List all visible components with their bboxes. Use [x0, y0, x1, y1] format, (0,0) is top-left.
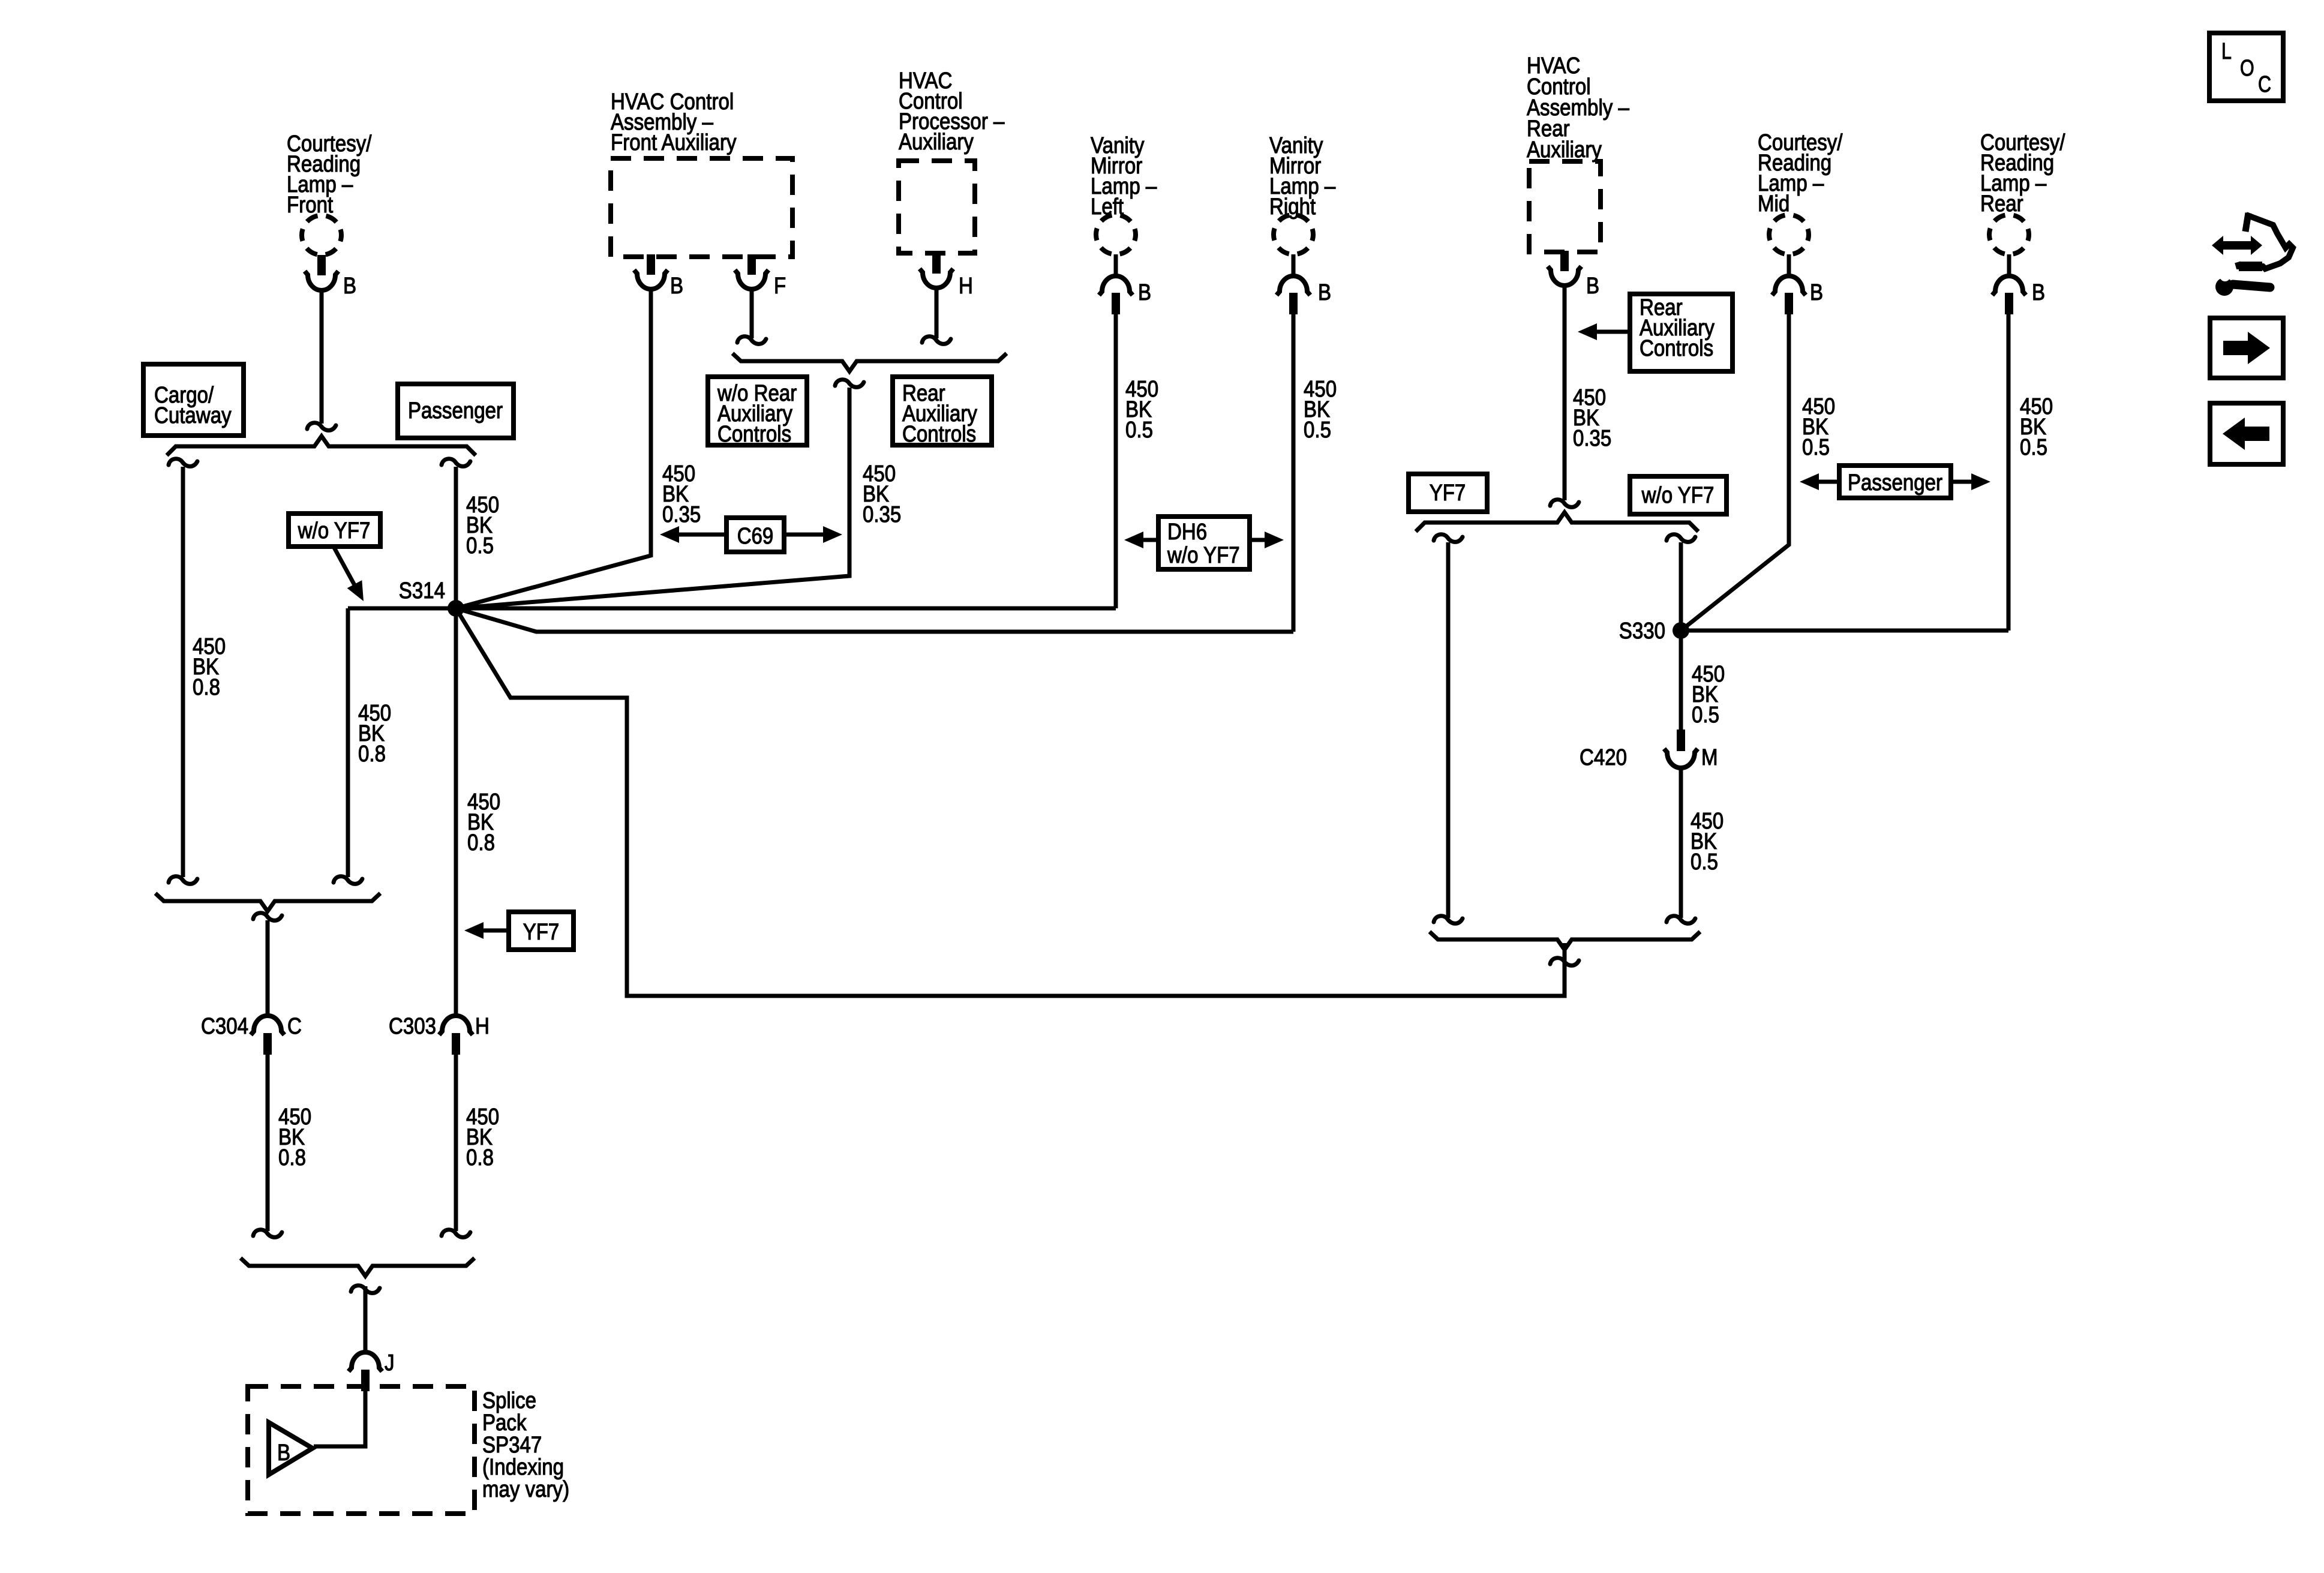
- svg-text:Pack: Pack: [482, 1410, 527, 1436]
- label Cargo/Cutaway: [154, 383, 232, 428]
- wire S314 long run to rear brace: [456, 608, 1565, 996]
- wire curl below left collect brace: [253, 913, 282, 921]
- wire pin H down: [935, 288, 939, 338]
- svg-text:Rear: Rear: [1980, 191, 2023, 217]
- wire S314 down to C303: [454, 608, 458, 1016]
- brace splitting front lamp wire: [167, 436, 476, 455]
- label Vanity Mirror Lamp - Right: [1269, 133, 1336, 220]
- wire curl above rear split brace: [1550, 500, 1579, 508]
- label Passenger: [408, 398, 503, 424]
- svg-text:0.35: 0.35: [662, 502, 701, 527]
- connector pin B of front lamp: [305, 255, 338, 290]
- svg-text:0.35: 0.35: [863, 502, 901, 527]
- wire curl rear split right: [1667, 535, 1695, 542]
- svg-text:C69: C69: [737, 524, 774, 549]
- svg-text:B: B: [1138, 280, 1151, 305]
- svg-text:Controls: Controls: [902, 422, 976, 447]
- label Passenger right: [1848, 470, 1942, 496]
- label 450 BK 0.5 vanity right: [1304, 377, 1337, 443]
- wire below C420: [1679, 768, 1683, 918]
- svg-text:0.8: 0.8: [278, 1145, 306, 1170]
- wire front lamp B down: [320, 290, 324, 424]
- lamp Courtesy/Reading Lamp - Front: [302, 215, 341, 255]
- svg-text:Auxiliary: Auxiliary: [899, 130, 974, 155]
- label HVAC Control Assembly Rear Auxiliary: [1527, 53, 1630, 163]
- svg-text:C304: C304: [201, 1014, 248, 1039]
- wire curl YF7 branch bottom: [1434, 916, 1463, 924]
- wire S314 to vanity right: [456, 608, 1293, 632]
- svg-text:0.5: 0.5: [466, 533, 494, 559]
- splice S330 dot: [1673, 622, 1689, 639]
- svg-text:w/o YF7: w/o YF7: [1167, 543, 1240, 568]
- wire J into splice pack: [314, 1391, 365, 1446]
- label Rear Auxiliary Controls middle: [902, 381, 977, 447]
- svg-text:YF7: YF7: [523, 920, 560, 945]
- svg-text:Mid: Mid: [1758, 191, 1789, 217]
- wire S330 to rear lamp: [1681, 314, 2008, 631]
- wire curl below F/H brace: [835, 380, 864, 388]
- connector pin F of HVAC front: [735, 254, 768, 289]
- svg-text:w/o YF7: w/o YF7: [1641, 483, 1715, 508]
- splice S314 dot: [448, 600, 464, 617]
- label w/o Rear Auxiliary Controls: [717, 381, 797, 447]
- box DH6 w/o YF7 with arrows: [1124, 517, 1284, 569]
- label pin M: [1701, 745, 1718, 770]
- HVAC front auxiliary dashed box: [611, 158, 792, 257]
- svg-text:0.8: 0.8: [358, 742, 386, 767]
- label w/o YF7: [298, 518, 371, 544]
- legend box left arrow: [2210, 403, 2283, 464]
- svg-text:S330: S330: [1619, 619, 1665, 644]
- svg-text:F: F: [774, 274, 786, 299]
- icon double arrow: [2212, 236, 2262, 255]
- svg-text:Passenger: Passenger: [1848, 470, 1942, 496]
- lamp Vanity Mirror Left symbol: [1096, 215, 1136, 254]
- svg-text:B: B: [343, 274, 356, 299]
- brace collecting rear branches: [1430, 932, 1700, 950]
- wire curl passenger branch top: [442, 459, 470, 467]
- wire curl above split brace: [307, 423, 336, 431]
- connector C69 box with arrows: [660, 518, 842, 552]
- label YF7 arrow box: [523, 920, 560, 945]
- box Passenger: [398, 384, 514, 438]
- svg-text:C: C: [287, 1014, 302, 1039]
- brace collecting F and H wires: [732, 353, 1007, 371]
- svg-text:(Indexing: (Indexing: [482, 1455, 564, 1480]
- wire curl cargo bottom: [169, 876, 197, 884]
- label S330: [1619, 619, 1665, 644]
- splice pack triangle terminal: [269, 1422, 313, 1475]
- box w/o Rear Auxiliary Controls: [708, 377, 807, 445]
- wire S330 to mid lamp diagonal: [1681, 314, 1789, 631]
- svg-text:C303: C303: [389, 1014, 436, 1039]
- svg-text:0.8: 0.8: [467, 830, 495, 855]
- label C69: [737, 524, 774, 549]
- svg-text:DH6: DH6: [1167, 520, 1207, 545]
- svg-text:S314: S314: [399, 578, 445, 604]
- wire S314 to vanity left: [456, 607, 1116, 611]
- label HVAC Control Assembly Front Auxiliary: [611, 89, 737, 155]
- svg-text:0.5: 0.5: [1691, 849, 1718, 875]
- wire YF7 branch down: [1446, 542, 1451, 918]
- label HVAC Control Processor Auxiliary: [899, 68, 1005, 155]
- svg-text:0.5: 0.5: [1802, 435, 1830, 460]
- svg-text:C: C: [2258, 72, 2271, 97]
- wire down to J: [364, 1286, 368, 1353]
- box Rear Auxiliary Controls middle: [893, 377, 992, 445]
- wire vanity left down: [1114, 314, 1118, 608]
- label pin B rear lamp: [2032, 280, 2045, 305]
- svg-text:M: M: [1701, 745, 1718, 770]
- wire below C304: [266, 1055, 270, 1231]
- box w/o YF7 with arrow: [289, 514, 380, 605]
- label pin C: [287, 1014, 302, 1039]
- wire cargo branch down: [181, 467, 185, 877]
- label YF7 right: [1430, 481, 1466, 506]
- connector pin B of HVAC front: [634, 254, 668, 289]
- box Passenger right with arrows: [1800, 466, 1990, 498]
- label 450 BK 0.5 passenger wire: [466, 493, 499, 559]
- svg-text:Front: Front: [287, 193, 334, 218]
- box Rear Auxiliary Controls with arrow: [1578, 294, 1733, 371]
- wire curl below F: [737, 337, 766, 344]
- svg-text:O: O: [2240, 56, 2254, 81]
- lamp Vanity Mirror Right symbol: [1274, 215, 1313, 254]
- svg-text:B: B: [1318, 280, 1331, 305]
- svg-text:Auxiliary: Auxiliary: [1527, 137, 1602, 163]
- label C304: [201, 1014, 248, 1039]
- wire pin F down: [750, 289, 754, 338]
- connector pin B of rear lamp: [1992, 254, 2026, 314]
- svg-text:B: B: [670, 274, 683, 299]
- legend box right arrow: [2210, 318, 2283, 378]
- svg-text:Right: Right: [1269, 194, 1316, 220]
- brace collecting cargo and middle wires: [155, 893, 380, 911]
- label pin B vanity right: [1318, 280, 1331, 305]
- wire curl below C303: [442, 1230, 470, 1238]
- label pin B front lamp: [343, 274, 356, 299]
- wire below C303: [454, 1055, 458, 1231]
- svg-text:may vary): may vary): [482, 1477, 569, 1502]
- label S314: [399, 578, 445, 604]
- svg-text:Controls: Controls: [1640, 336, 1713, 361]
- label 450 BK 0.5 mid lamp: [1802, 394, 1835, 460]
- label w/o YF7 right: [1641, 483, 1715, 508]
- wire S314 left then down: [348, 608, 456, 877]
- connector C304: [251, 1016, 284, 1055]
- icon wrench: [2215, 271, 2270, 296]
- svg-text:L: L: [2221, 39, 2232, 64]
- label pin B vanity left: [1138, 280, 1151, 305]
- svg-text:Passenger: Passenger: [408, 398, 503, 424]
- label C of LOC: [2258, 72, 2271, 97]
- label Courtesy/Reading Lamp - Mid: [1758, 130, 1843, 217]
- label 450 BK 0.8 below S314: [467, 789, 500, 855]
- wire curl below bottom brace: [351, 1286, 380, 1293]
- label DH6 w/o YF7: [1167, 520, 1240, 568]
- label pin B mid lamp: [1810, 280, 1823, 305]
- label Rear Auxiliary Controls box: [1640, 295, 1715, 361]
- svg-text:Controls: Controls: [717, 422, 791, 447]
- label 450 BK 0.8 cargo wire: [193, 634, 226, 700]
- brace splitting rear wire: [1416, 512, 1698, 532]
- connector pin B of vanity right: [1277, 254, 1310, 314]
- box YF7 with arrow: [464, 912, 574, 950]
- svg-text:0.5: 0.5: [1692, 703, 1719, 728]
- box Cargo/Cutaway: [143, 364, 244, 436]
- label pin H of C303: [475, 1014, 490, 1039]
- connector pin B of HVAC rear: [1548, 251, 1581, 286]
- label Splice Pack SP347: [482, 1388, 569, 1502]
- label L of LOC: [2221, 39, 2232, 64]
- lamp Courtesy Mid symbol: [1769, 215, 1809, 254]
- wire rear pin B down: [1563, 286, 1567, 500]
- connector C420: [1664, 730, 1698, 768]
- connector pin B of mid lamp: [1772, 254, 1806, 314]
- label B triangle: [277, 1440, 290, 1466]
- label C420: [1580, 745, 1627, 770]
- connector C303: [439, 1016, 473, 1055]
- svg-text:B: B: [1810, 280, 1823, 305]
- svg-text:0.8: 0.8: [466, 1145, 494, 1170]
- label pin B HVAC front: [670, 274, 683, 299]
- svg-text:C420: C420: [1580, 745, 1627, 770]
- box YF7 right section: [1409, 474, 1487, 512]
- label 450 BK 0.5 vanity left: [1125, 377, 1158, 443]
- LOC legend box: [2209, 33, 2283, 101]
- label 450 BK 0.35 right: [863, 461, 901, 527]
- connector pin H of HVAC processor: [920, 253, 953, 288]
- icon component stub: [2245, 213, 2248, 232]
- wire curl below H: [922, 337, 951, 344]
- label Courtesy/Reading Lamp - Rear: [1980, 130, 2065, 217]
- label 450 BK 0.5 below S330: [1692, 662, 1725, 728]
- wire down to C304: [266, 920, 270, 1016]
- svg-text:w/o YF7: w/o YF7: [298, 518, 371, 544]
- wire passenger branch to S314: [454, 467, 458, 608]
- icon component outline: [2238, 215, 2293, 269]
- label 450 BK 0.8 middle wire: [358, 701, 391, 767]
- label 450 BK 0.35 rear: [1573, 385, 1611, 451]
- svg-text:YF7: YF7: [1430, 481, 1466, 506]
- svg-text:B: B: [277, 1440, 290, 1466]
- svg-text:Left: Left: [1091, 194, 1124, 220]
- wire w/o YF7 branch to C420: [1679, 542, 1683, 730]
- svg-text:0.8: 0.8: [193, 675, 220, 700]
- lamp Courtesy Rear symbol: [1989, 215, 2029, 254]
- label pin B HVAC rear: [1586, 274, 1599, 299]
- wire curl below C420: [1667, 916, 1695, 924]
- label Courtesy/Reading Lamp - Front: [287, 131, 372, 218]
- svg-text:0.5: 0.5: [1304, 418, 1331, 443]
- wire curl cargo branch top: [169, 459, 197, 467]
- svg-text:H: H: [959, 274, 973, 299]
- wire curl below C304: [253, 1230, 282, 1238]
- label pin J: [385, 1350, 395, 1376]
- connector pin B of vanity left: [1099, 254, 1133, 314]
- label 450 BK 0.5 below C420: [1691, 809, 1724, 875]
- label O of LOC: [2240, 56, 2254, 81]
- label C303: [389, 1014, 436, 1039]
- svg-text:0.5: 0.5: [1125, 418, 1153, 443]
- wire curl rear split left: [1434, 535, 1463, 542]
- box w/o YF7 right section: [1630, 476, 1727, 514]
- svg-text:Splice: Splice: [482, 1388, 536, 1413]
- connector J: [349, 1352, 382, 1391]
- svg-text:0.5: 0.5: [2020, 435, 2047, 460]
- label pin H HVAC processor: [959, 274, 973, 299]
- svg-text:B: B: [1586, 274, 1599, 299]
- label pin F HVAC front: [774, 274, 786, 299]
- HVAC rear auxiliary dashed box: [1529, 161, 1601, 252]
- wire curl left-down bottom: [334, 876, 362, 884]
- label 450 BK 0.35 left: [662, 461, 701, 527]
- label 450 BK 0.5 rear lamp: [2020, 394, 2053, 460]
- splice pack SP347 dashed box: [248, 1386, 475, 1514]
- label Vanity Mirror Lamp - Left: [1091, 133, 1157, 220]
- wire curl on rear riser: [1550, 958, 1579, 966]
- HVAC processor dashed box: [899, 161, 975, 253]
- svg-text:SP347: SP347: [482, 1433, 542, 1458]
- svg-text:H: H: [475, 1014, 490, 1039]
- svg-text:B: B: [2032, 280, 2045, 305]
- brace collecting C304 and C303 wires: [241, 1258, 475, 1276]
- svg-text:Front Auxiliary: Front Auxiliary: [611, 130, 737, 155]
- wire F/H brace to S314 diagonal: [456, 388, 849, 608]
- label 450 BK 0.8 below C304: [278, 1104, 311, 1170]
- wire pin B to S314 diagonal: [456, 289, 651, 608]
- label 450 BK 0.8 below C303: [466, 1104, 499, 1170]
- wire vanity right down: [1292, 314, 1296, 632]
- svg-text:J: J: [385, 1350, 395, 1376]
- svg-text:0.35: 0.35: [1573, 426, 1611, 451]
- svg-text:Cutaway: Cutaway: [154, 403, 232, 428]
